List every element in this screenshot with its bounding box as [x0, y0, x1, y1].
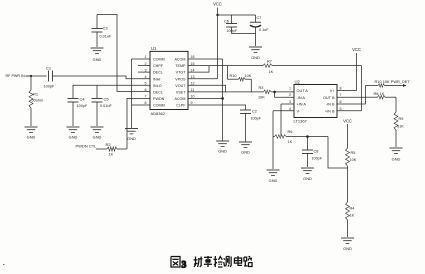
ground for R9	[390, 148, 403, 162]
svg-text:R10 10K PWR_DET: R10 10K PWR_DET	[375, 79, 411, 84]
svg-text:CHPF: CHPF	[153, 64, 164, 68]
resistor R9 51K to ground	[394, 97, 404, 147]
svg-text:2: 2	[289, 93, 291, 97]
svg-text:2: 2	[145, 62, 147, 66]
wire C3 top to DECL pin6 of U1	[97, 15, 150, 92]
wire DECL pin3 stub	[138, 71, 150, 73]
svg-text:13: 13	[191, 75, 195, 79]
svg-text:RF PWR IN: RF PWR IN	[6, 74, 26, 78]
wire VCC vertical rail to VPOS	[217, 8, 219, 79]
svg-text:1K: 1K	[288, 140, 293, 144]
svg-text:VCC: VCC	[343, 119, 352, 124]
wire TEMP line down to +INB of U2	[361, 66, 363, 111]
resistor R1 50ohm vertical	[29, 76, 43, 126]
svg-text:8: 8	[145, 101, 147, 105]
svg-text:OUT A: OUT A	[297, 89, 309, 93]
svg-text:5: 5	[340, 107, 342, 111]
svg-text:-IN B: -IN B	[326, 103, 335, 107]
svg-text:9: 9	[191, 101, 193, 105]
svg-text:0.01uF: 0.01uF	[100, 104, 113, 108]
svg-text:50ohm: 50ohm	[32, 99, 44, 103]
svg-text:10K: 10K	[258, 96, 265, 100]
capacitor C5 0.01uF on INLO	[92, 85, 113, 126]
svg-text:R4: R4	[350, 207, 355, 211]
svg-text:TEMP: TEMP	[175, 64, 186, 68]
svg-text:C7: C7	[257, 16, 262, 20]
ground for C4	[67, 127, 80, 140]
svg-text:U1: U1	[151, 46, 157, 51]
wire node to C1	[31, 75, 47, 77]
svg-text:PWDN: PWDN	[153, 97, 165, 101]
svg-text:C4: C4	[80, 97, 86, 102]
svg-text:ACOM: ACOM	[174, 97, 185, 101]
svg-text:GND: GND	[93, 135, 102, 140]
svg-text:COMM: COMM	[153, 104, 165, 108]
wire +INB pin5 stub	[337, 110, 362, 112]
resistor R4 1K divider bottom	[346, 166, 355, 237]
svg-text:4: 4	[289, 107, 291, 111]
svg-text:GND: GND	[27, 135, 36, 140]
svg-text:3: 3	[289, 100, 291, 104]
svg-text:VTGT: VTGT	[176, 71, 187, 75]
svg-text:ACOM: ACOM	[174, 58, 185, 62]
wire VCC to decoupling caps	[218, 14, 256, 16]
resistor R2 1K in PWDN line	[96, 142, 127, 157]
svg-text:10K: 10K	[350, 158, 357, 162]
svg-text:C5: C5	[104, 97, 110, 102]
node junction ACOM pin10 on ground rail	[221, 97, 224, 100]
svg-text:R1: R1	[33, 92, 39, 97]
svg-text:100pF: 100pF	[77, 104, 88, 108]
capacitor C4 100pF on INLO	[68, 85, 88, 126]
svg-text:51K: 51K	[397, 125, 404, 129]
svg-text:GND: GND	[392, 157, 401, 162]
svg-text:INLO: INLO	[153, 84, 162, 88]
svg-text:DECL: DECL	[153, 71, 163, 75]
wire C4 to INLO pin5 of U1	[73, 84, 150, 86]
svg-text:PWDN CTL: PWDN CTL	[76, 144, 98, 149]
wire R10 down to VSET row	[250, 79, 252, 92]
svg-text:C3: C3	[103, 26, 109, 31]
svg-text:4: 4	[145, 75, 147, 79]
svg-text:5: 5	[145, 82, 147, 86]
speck bottom-left	[3, 264, 5, 265]
svg-text:VSET: VSET	[176, 91, 186, 95]
wire OUT B pin7 to feedback node	[337, 96, 366, 98]
svg-text:V+: V+	[330, 89, 336, 93]
svg-text:1K: 1K	[109, 153, 114, 157]
ground for ACOM rail	[216, 141, 229, 154]
svg-text:COMM: COMM	[153, 58, 165, 62]
ground for C5	[91, 127, 104, 140]
ground for divider	[341, 238, 354, 251]
svg-text:LT1367: LT1367	[294, 119, 308, 124]
node junction VSET feedback to -INA	[273, 91, 276, 94]
svg-text:15: 15	[191, 62, 195, 66]
resistor R8 1K feedback	[366, 91, 397, 99]
svg-text:6: 6	[340, 100, 342, 104]
capacitor C6 100pF VCC decoupling	[224, 15, 256, 34]
wire reference line to divider node	[328, 137, 348, 169]
wire VTGT pin14 loop to TEMP	[188, 66, 209, 73]
wire TEMP branch down to R10	[227, 66, 229, 80]
svg-text:C2: C2	[252, 110, 257, 114]
wire COMM bus pins 1,8 of U1 to ground	[132, 59, 151, 128]
resistor R5 10K divider top	[346, 124, 357, 166]
ground for C3	[91, 48, 104, 62]
svg-text:0.01uF: 0.01uF	[100, 35, 113, 39]
capacitor C8 100pF reference filter	[302, 137, 323, 168]
ground for C8	[301, 168, 314, 181]
wire TEMP pin15	[188, 65, 228, 67]
wire -INB pin6 stub	[337, 103, 366, 105]
svg-text:1: 1	[289, 86, 291, 90]
wire C1 to INHI pin4 of U1	[53, 76, 151, 79]
capacitor C1 100pF series	[44, 66, 55, 89]
svg-text:3: 3	[182, 260, 187, 270]
svg-text:6: 6	[145, 88, 147, 92]
op-amp U2 LT1367 body	[289, 79, 342, 123]
svg-text:C1: C1	[46, 66, 52, 71]
resistor R10 10K temp compensation	[228, 74, 252, 81]
svg-text:GND: GND	[127, 136, 136, 141]
svg-text:+IN B: +IN B	[325, 110, 335, 114]
svg-text:GND: GND	[343, 246, 352, 251]
svg-text:R3: R3	[259, 86, 264, 90]
wire ACOM pin16 to ground rail	[188, 58, 223, 60]
svg-text:AD8362: AD8362	[151, 111, 166, 116]
svg-text:11: 11	[191, 88, 195, 92]
wire CHPF pin2 stub	[138, 65, 150, 67]
wire RF input to node	[26, 75, 32, 77]
svg-text:R5: R5	[351, 151, 356, 155]
svg-text:GND: GND	[218, 149, 227, 154]
svg-text:1K: 1K	[269, 70, 274, 74]
svg-text:GND: GND	[251, 55, 260, 60]
wire VOUT pin12 jog to VSET	[188, 85, 226, 92]
wire ACOM pin10 stub	[188, 97, 223, 99]
svg-text:8: 8	[340, 86, 342, 90]
svg-text:10K: 10K	[245, 74, 252, 78]
svg-text:+IN A: +IN A	[297, 103, 307, 107]
svg-text:1K: 1K	[350, 214, 355, 218]
svg-text:CLPF: CLPF	[176, 104, 186, 108]
svg-text:100pF: 100pF	[312, 157, 323, 161]
wire VPOS pin13 to VCC rail	[188, 78, 218, 80]
svg-text:VCC: VCC	[352, 47, 361, 52]
svg-text:12: 12	[191, 82, 195, 86]
wire PWDN line up to PWDN pin7 of U1	[127, 98, 150, 149]
wire junction down to -INA pin2 of U2	[275, 92, 294, 97]
svg-text:VCC: VCC	[213, 2, 222, 7]
node A junction dot at RF input	[30, 75, 32, 77]
svg-text:DECL: DECL	[153, 91, 163, 95]
svg-text:OUT B: OUT B	[323, 96, 335, 100]
svg-text:14: 14	[191, 68, 195, 72]
resistor R7 1K in TEMP line to op-amp B	[228, 60, 362, 74]
svg-text:7: 7	[145, 95, 147, 99]
svg-text:1: 1	[145, 55, 147, 59]
svg-text:R8 1K: R8 1K	[374, 91, 385, 96]
svg-text:R7: R7	[267, 60, 272, 64]
capacitor C7 0.1uF VCC decoupling	[250, 15, 269, 46]
svg-text:R2: R2	[106, 142, 112, 147]
svg-text:GND: GND	[69, 135, 78, 140]
ground for R1	[25, 127, 38, 140]
svg-text:C6: C6	[224, 20, 229, 24]
svg-text:U2: U2	[295, 79, 301, 84]
svg-text:GND: GND	[241, 150, 250, 155]
ground for C2	[239, 142, 252, 155]
svg-text:GND: GND	[303, 176, 312, 181]
svg-text:R9: R9	[399, 117, 404, 121]
wire feedback vertical OUTB to -INB	[365, 86, 367, 105]
resistor R6 1K in +INA reference line	[273, 130, 328, 144]
svg-text:100pF: 100pF	[227, 29, 238, 33]
node junction C8 on reference line	[306, 135, 309, 138]
svg-text:VOUT: VOUT	[175, 84, 186, 88]
wire VCC to V+ pin8 of U2	[337, 53, 357, 90]
svg-text:VPOS: VPOS	[175, 77, 186, 81]
svg-text:3: 3	[145, 68, 147, 72]
svg-text:INHI: INHI	[153, 77, 160, 81]
svg-text:GND: GND	[93, 57, 102, 62]
wire V- pin4 to ground	[273, 110, 294, 112]
resistor R3 10K in VSET line	[188, 86, 294, 100]
svg-text:100pF: 100pF	[251, 117, 262, 121]
capacitor C2 100pF on CLPF	[240, 110, 262, 142]
wire ACOM vertical rail down to ground	[222, 59, 224, 141]
caption text 图3 功率检测电路	[171, 256, 252, 270]
ground for V-	[267, 170, 280, 183]
svg-text:C8: C8	[314, 150, 319, 154]
svg-text:-IN A: -IN A	[297, 96, 306, 100]
capacitor C3 0.01uF top decoupling	[92, 15, 113, 48]
wire CLPF pin9 to C2	[188, 105, 246, 110]
ground for U1 COMM	[125, 129, 138, 142]
svg-text:16: 16	[191, 55, 195, 59]
svg-text:100pF: 100pF	[44, 85, 55, 89]
svg-text:GND: GND	[269, 178, 278, 183]
svg-text:R10: R10	[230, 74, 237, 78]
node junction VCC decoupling branch	[216, 14, 218, 16]
op-amp U1 AD8362 detector IC body	[145, 46, 195, 116]
ground for VCC decoupling caps	[249, 47, 262, 60]
resistor R10 10K output to PWR_DET	[366, 79, 411, 87]
svg-text:10: 10	[191, 95, 195, 99]
svg-text:0.1uF: 0.1uF	[259, 28, 269, 32]
svg-text:R6: R6	[288, 130, 293, 134]
wire +INA pin3 down to divider	[281, 103, 294, 105]
svg-text:7: 7	[340, 93, 342, 97]
